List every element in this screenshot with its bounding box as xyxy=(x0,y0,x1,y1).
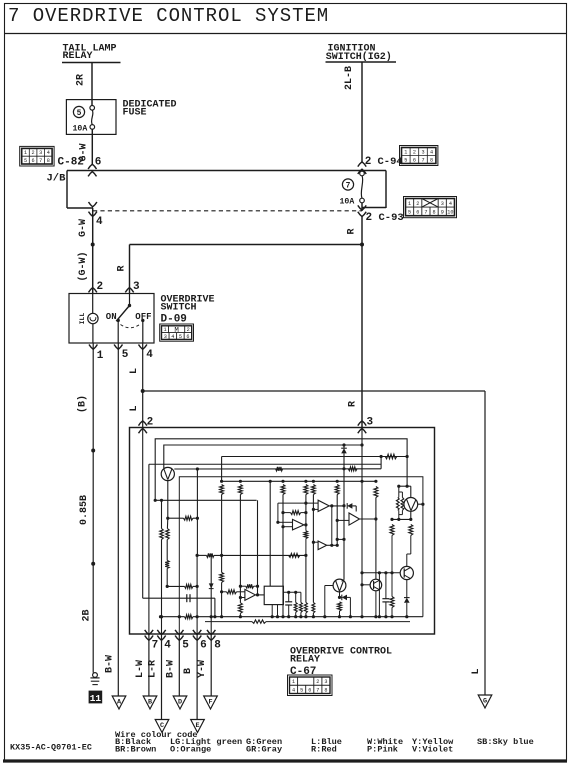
ground triangle E xyxy=(191,720,205,733)
svg-text:SWITCH: SWITCH xyxy=(161,302,197,313)
wire D3 to A4 xyxy=(352,505,356,507)
wire A5 input 2 xyxy=(240,597,245,599)
resistor R10 xyxy=(385,454,397,459)
junction y555b xyxy=(220,554,223,557)
resistor R19a xyxy=(295,592,297,602)
connector C-93 pin grid xyxy=(404,197,457,218)
svg-text:3: 3 xyxy=(441,201,444,207)
resistor R3 (T1 col upper) xyxy=(166,529,170,540)
svg-text:7: 7 xyxy=(316,687,319,693)
resistor R11 xyxy=(276,467,283,471)
resistor R16 (A5 input 1) xyxy=(220,590,223,593)
resistor R5 xyxy=(185,584,193,588)
wire pin4 column xyxy=(161,500,163,528)
wire mid feed xyxy=(222,456,408,458)
svg-text:7 OVERDRIVE CONTROL SYSTEM: 7 OVERDRIVE CONTROL SYSTEM xyxy=(8,5,329,27)
wire L branch to right xyxy=(143,390,485,392)
ignition switch feed bar xyxy=(326,61,397,63)
junction t1b xyxy=(196,467,199,470)
svg-text:KX35-AC-Q0701-EC: KX35-AC-Q0701-EC xyxy=(10,743,92,753)
junction of R wire xyxy=(360,243,364,247)
svg-text:(B): (B) xyxy=(77,395,89,413)
lower return rail xyxy=(205,621,252,623)
wire col 306 lower xyxy=(305,555,307,602)
ground triangle B xyxy=(143,696,157,709)
wire A3 out xyxy=(327,544,338,546)
connector arrows at relay pin 6 xyxy=(193,630,201,635)
junction c344 xyxy=(342,504,345,507)
svg-text:1: 1 xyxy=(404,149,407,155)
junction p4rail xyxy=(160,615,163,618)
svg-text:2: 2 xyxy=(365,156,372,168)
svg-text:RELAY: RELAY xyxy=(290,655,320,666)
overdrive switch box xyxy=(69,294,154,344)
svg-text:2: 2 xyxy=(187,327,190,333)
svg-text:3: 3 xyxy=(324,679,327,685)
resistor R2 xyxy=(160,529,164,540)
wire Q2 collector xyxy=(418,503,423,505)
wire col 376 supply xyxy=(374,480,377,483)
svg-text:8: 8 xyxy=(47,158,50,164)
wire 2R from tail lamp relay xyxy=(91,63,93,100)
wire A1 out xyxy=(329,505,345,507)
svg-text:1: 1 xyxy=(97,350,104,362)
wire y586 link xyxy=(167,585,184,587)
connector C-67 pin grid xyxy=(288,675,333,696)
svg-text:7: 7 xyxy=(152,640,159,652)
wire col 283 xyxy=(281,480,284,483)
transistor Q2 xyxy=(404,498,418,512)
wire col 337 xyxy=(336,480,339,483)
svg-text:J/B: J/B xyxy=(47,173,67,185)
wire col 257 (A5 feedback) xyxy=(257,500,259,595)
svg-text:5: 5 xyxy=(182,640,189,652)
svg-text:2R: 2R xyxy=(76,74,87,86)
wire relay pin7 column xyxy=(148,464,150,634)
switch common contact (pin 3) xyxy=(129,294,131,306)
svg-text:4: 4 xyxy=(449,201,452,207)
ON contact xyxy=(117,319,120,322)
wire capacitor line corner to bottom rail xyxy=(214,598,216,617)
resistor R12 xyxy=(348,467,357,471)
resistor R21 xyxy=(399,491,403,493)
svg-text:P:Pink: P:Pink xyxy=(367,744,398,754)
wire y486 xyxy=(399,485,411,487)
wire col 221 xyxy=(221,457,223,482)
fuse number circled 7 xyxy=(342,179,353,190)
svg-text:7: 7 xyxy=(421,157,424,163)
svg-text:SB:Sky blue: SB:Sky blue xyxy=(477,737,534,747)
svg-text:L-R: L-R xyxy=(147,660,158,678)
svg-text:4: 4 xyxy=(171,334,174,340)
wire A2 lower input xyxy=(283,526,293,528)
resistor R18 xyxy=(291,511,301,515)
svg-text:Y-W: Y-W xyxy=(197,660,208,678)
junction t1low xyxy=(166,585,169,588)
bottom rail xyxy=(161,616,185,618)
connector arrows at C-93 pin 2 xyxy=(358,205,366,210)
overdrive control relay outer box xyxy=(130,428,435,635)
transistor Q1 xyxy=(161,467,174,480)
wire Q3 base line xyxy=(362,572,400,574)
junction on L wire xyxy=(141,389,145,393)
svg-text:OFF: OFF xyxy=(135,312,151,322)
svg-text:2B: 2B xyxy=(81,609,92,621)
wire T1 base rail xyxy=(174,468,381,470)
op-amp A5 xyxy=(245,589,256,600)
svg-text:8: 8 xyxy=(214,640,221,652)
svg-text:SWITCH(IG2): SWITCH(IG2) xyxy=(326,51,392,63)
resistor R15 xyxy=(239,480,242,483)
connector arrow at switch pin 3 xyxy=(125,288,133,293)
svg-text:3: 3 xyxy=(164,334,167,340)
svg-text:(G-W): (G-W) xyxy=(77,251,89,281)
wire gray rail xyxy=(149,463,381,465)
J/B connector boundary (dashed) xyxy=(93,210,362,212)
transistor Q5 xyxy=(370,579,382,591)
connector arrows at relay pin 8 xyxy=(207,630,215,635)
supply rail from pin3 xyxy=(222,480,376,482)
svg-text:C-82: C-82 xyxy=(58,157,84,169)
OFF contact xyxy=(141,319,144,322)
splice joint on G-W wire xyxy=(91,243,95,247)
wire (G-W) splice to switch pin 2 xyxy=(92,245,94,294)
svg-text:E: E xyxy=(195,722,199,730)
transistor Q4 xyxy=(333,579,346,592)
junction a1in xyxy=(312,508,315,511)
svg-text:10: 10 xyxy=(447,209,453,215)
junction m1 xyxy=(380,455,383,458)
svg-text:B: B xyxy=(183,668,194,674)
resistor R24 xyxy=(391,573,393,597)
wire A1 feed corner xyxy=(278,503,318,522)
svg-text:4: 4 xyxy=(292,687,295,693)
wire col 313 xyxy=(312,480,315,483)
wire y555 link xyxy=(197,554,206,556)
svg-text:C-94: C-94 xyxy=(378,156,403,168)
svg-text:L-W: L-W xyxy=(135,660,146,678)
op-amp A3 xyxy=(318,541,327,550)
svg-text:3: 3 xyxy=(133,281,140,293)
wire 0.85B xyxy=(92,451,94,564)
wire L-W relay pin7 to ground B xyxy=(148,639,150,696)
svg-text:6: 6 xyxy=(186,334,189,340)
wire L switch pin4 to junction xyxy=(142,343,144,391)
wire top loop a xyxy=(155,439,407,501)
junction q1e xyxy=(166,517,169,520)
svg-text:10A: 10A xyxy=(73,125,88,134)
svg-text:D: D xyxy=(178,698,182,706)
junction a5in xyxy=(239,585,242,588)
connector C-94 pin grid xyxy=(400,146,438,166)
svg-text:7: 7 xyxy=(39,158,42,164)
connector arrows at relay pin 5 xyxy=(175,630,183,635)
wire pin3 column (relay) xyxy=(361,428,363,616)
wire pin8 column xyxy=(210,555,212,634)
resistor R4 (T1 col lower) xyxy=(166,540,168,561)
wire Q2 feed xyxy=(406,457,408,486)
svg-text:BR:Brown: BR:Brown xyxy=(115,744,156,754)
wire L junction to relay pin 2 xyxy=(142,391,144,428)
resistor R16b (A5 feedback) xyxy=(246,584,254,588)
svg-text:4: 4 xyxy=(146,349,153,361)
capacitor C2 xyxy=(288,592,290,602)
svg-text:C-93: C-93 xyxy=(379,212,404,224)
wire R branch to overdrive switch xyxy=(130,244,363,246)
wire Q5 top xyxy=(375,578,377,580)
svg-text:1: 1 xyxy=(292,679,295,685)
wire relay pin2 column xyxy=(142,428,144,599)
svg-text:2: 2 xyxy=(32,150,35,156)
junction b1 xyxy=(342,443,345,446)
wire D4 to rail xyxy=(406,603,408,617)
splice on ground wire xyxy=(91,449,95,453)
svg-text:5: 5 xyxy=(122,349,129,361)
wire R10 left link xyxy=(380,457,382,469)
resistor R17 xyxy=(238,603,242,614)
svg-text:F: F xyxy=(208,698,212,706)
junction a1 xyxy=(154,499,157,502)
capacitor C3 xyxy=(385,573,387,599)
wire pin2 to capacitor line xyxy=(143,597,215,599)
connector arrows at relay pin 3 xyxy=(358,421,366,426)
junction a2in xyxy=(281,511,284,514)
junction y500 xyxy=(160,499,163,502)
wire col 270 xyxy=(269,480,272,483)
dedicated fuse box xyxy=(66,100,116,135)
wire x338-x344 link xyxy=(337,538,344,540)
svg-text:C-67: C-67 xyxy=(290,666,316,678)
wire R from C-93 to junction xyxy=(361,217,363,245)
junction p6 xyxy=(196,554,199,557)
capacitor C1 xyxy=(186,594,188,602)
wire pin6 upper column xyxy=(196,469,198,555)
svg-text:6: 6 xyxy=(32,158,35,164)
svg-text:2: 2 xyxy=(97,281,104,293)
svg-text:2: 2 xyxy=(413,149,416,155)
svg-text:5: 5 xyxy=(77,109,82,118)
svg-text:7: 7 xyxy=(346,182,351,191)
wire col 379 xyxy=(378,573,380,617)
svg-text:5: 5 xyxy=(404,157,407,163)
wire R junction to relay pin 3 xyxy=(361,245,363,428)
IC U1 xyxy=(264,586,283,604)
resistor R7 xyxy=(289,553,300,557)
resistor R26 (A2 out) xyxy=(304,531,308,539)
wire U1 output xyxy=(283,591,301,593)
illumination lamp ILL xyxy=(92,294,94,314)
wire y500 rail xyxy=(155,499,256,501)
connector arrows at C-82/J/B pin 6 xyxy=(88,164,96,169)
diode D1 (pin8 col) xyxy=(209,583,214,588)
resistor R14 xyxy=(220,572,224,582)
wire col 306 upper xyxy=(304,480,307,483)
svg-text:5: 5 xyxy=(408,209,411,215)
svg-text:10A: 10A xyxy=(340,198,355,207)
connector C-82 pin grid xyxy=(20,146,54,166)
switch throw arc (dashed) xyxy=(121,324,142,328)
ground reference 11 xyxy=(89,691,103,704)
svg-text:R:Red: R:Red xyxy=(311,744,337,754)
svg-text:2: 2 xyxy=(366,212,373,224)
wire Y-W relay pin8 to ground F xyxy=(210,633,212,696)
fuse symbol (dedicated fuse) xyxy=(91,100,93,106)
svg-text:R: R xyxy=(116,265,127,271)
svg-text:L: L xyxy=(471,668,482,674)
svg-text:RELAY: RELAY xyxy=(63,51,93,62)
wire Q5 bottom xyxy=(375,591,377,617)
junction loop xyxy=(178,615,181,618)
junction c376 xyxy=(374,517,377,520)
svg-text:8: 8 xyxy=(433,209,436,215)
svg-text:B: B xyxy=(148,698,152,706)
diode D3 xyxy=(347,503,352,509)
chassis ground symbol xyxy=(93,673,98,678)
resistor R22 xyxy=(390,524,394,535)
ground triangle F xyxy=(204,696,218,709)
wire L-R relay pin4 to ground C xyxy=(161,633,163,720)
wire 2B xyxy=(92,564,94,673)
svg-text:C: C xyxy=(160,722,164,730)
resistor R25 xyxy=(338,602,342,611)
wire A3 feedback xyxy=(331,506,333,545)
resistor R19b xyxy=(300,592,302,602)
wire U1 bottom pins xyxy=(271,605,273,617)
ground triangle A xyxy=(112,696,126,709)
wire Q5 base xyxy=(362,584,370,586)
connector arrows at C-94 pin 2 xyxy=(358,162,366,167)
svg-text:9: 9 xyxy=(441,209,444,215)
svg-text:B-W: B-W xyxy=(105,655,116,673)
svg-text:L: L xyxy=(129,368,140,374)
wire top loop b xyxy=(164,445,362,468)
wire Q4 base left xyxy=(325,585,333,587)
wire G-W J/B to splice xyxy=(92,208,94,245)
wire A5 out xyxy=(255,594,264,596)
connector arrows at relay pin 4 xyxy=(157,630,165,635)
wire y519 xyxy=(392,518,411,520)
svg-text:ILL: ILL xyxy=(79,313,86,325)
svg-text:R: R xyxy=(348,401,359,407)
resistor R23 xyxy=(409,524,413,535)
svg-text:V:Violet: V:Violet xyxy=(412,744,453,754)
switch lever xyxy=(116,306,129,322)
svg-text:2L-B: 2L-B xyxy=(344,66,355,90)
svg-text:5: 5 xyxy=(179,334,182,340)
junction block J/B box xyxy=(67,170,386,172)
svg-text:8: 8 xyxy=(430,157,433,163)
svg-text:3: 3 xyxy=(367,417,374,429)
svg-text:O:Orange: O:Orange xyxy=(170,744,211,754)
connector arrow at switch pin 5 xyxy=(114,345,122,350)
resistor R13 xyxy=(220,485,224,495)
junction p8rail xyxy=(210,615,213,618)
op-amp A4 xyxy=(349,513,360,525)
wire R1 link xyxy=(168,517,184,519)
wire B switch pin1 to ground xyxy=(92,343,94,451)
svg-text:B-W: B-W xyxy=(166,660,177,678)
wire pin6 column xyxy=(196,555,198,634)
wire Q3 emitter xyxy=(406,580,408,598)
connector arrows at relay pin 2 xyxy=(139,421,147,426)
wire B relay pin6 to ground E xyxy=(196,633,198,720)
connector arrow at switch pin 1 xyxy=(89,345,97,350)
connector D-09 pin grid xyxy=(160,324,194,341)
op-amp A1 xyxy=(318,500,329,511)
svg-text:6: 6 xyxy=(416,209,419,215)
wire col 344 lower xyxy=(343,453,345,579)
svg-text:4: 4 xyxy=(164,640,171,652)
svg-text:6: 6 xyxy=(200,640,207,652)
svg-text:2: 2 xyxy=(416,201,419,207)
wire A4 out xyxy=(360,518,376,520)
svg-text:1: 1 xyxy=(163,327,166,333)
wire A2 out xyxy=(304,524,306,526)
svg-text:8: 8 xyxy=(324,687,327,693)
wire A2 upper input xyxy=(278,521,293,523)
resistor R1 xyxy=(184,516,193,520)
splice on ground wire 2 xyxy=(91,562,95,566)
connector arrow at switch pin 4 xyxy=(139,345,147,350)
wire 2L-B from ignition switch xyxy=(361,62,363,163)
connector arrows at relay pin 7 xyxy=(145,630,153,635)
connector arrow at switch pin 2 xyxy=(89,288,97,293)
junction pin3 col xyxy=(360,480,363,483)
fuse symbol (J/B fuse 7) xyxy=(361,170,363,173)
svg-text:4: 4 xyxy=(430,149,433,155)
svg-text:2: 2 xyxy=(316,679,319,685)
svg-text:3: 3 xyxy=(39,150,42,156)
wire Q4 emitter xyxy=(339,592,341,598)
svg-text:1: 1 xyxy=(24,150,27,156)
wire B-W switch pin5 to ground A xyxy=(117,343,119,696)
svg-text:5: 5 xyxy=(24,158,27,164)
svg-text:G: G xyxy=(483,697,487,705)
svg-text:4: 4 xyxy=(47,150,50,156)
diode D5 xyxy=(340,596,342,598)
transistor Q3 xyxy=(400,566,413,579)
svg-text:6: 6 xyxy=(413,157,416,163)
ground triangle G xyxy=(478,695,492,708)
resistor R20 xyxy=(398,486,400,497)
junction rail-left xyxy=(159,615,162,618)
tail lamp relay feed bar xyxy=(62,62,121,64)
svg-text:3: 3 xyxy=(421,149,424,155)
svg-text:GR:Gray: GR:Gray xyxy=(246,744,282,754)
connector arrows at J/B pin 4 xyxy=(89,202,97,207)
diode D2 xyxy=(341,448,347,453)
svg-text:0.85B: 0.85B xyxy=(79,495,90,525)
svg-text:2: 2 xyxy=(147,417,154,429)
svg-text:7: 7 xyxy=(424,209,427,215)
svg-text:6: 6 xyxy=(308,687,311,693)
fuse number circled 5 xyxy=(73,106,84,117)
wire G-W fuse to C-82 xyxy=(91,134,93,165)
wire B-W relay pin5 to ground D xyxy=(178,633,180,696)
svg-text:5: 5 xyxy=(300,687,303,693)
svg-text:4: 4 xyxy=(96,216,103,228)
svg-text:ON: ON xyxy=(106,312,117,322)
svg-text:L: L xyxy=(129,405,140,411)
resistor R6 xyxy=(207,553,215,557)
wire col 344 (from top) xyxy=(343,445,345,448)
svg-text:11: 11 xyxy=(90,693,102,704)
svg-text:1: 1 xyxy=(408,201,411,207)
svg-text:G-W: G-W xyxy=(78,219,89,237)
op-amp A2 xyxy=(293,519,304,530)
svg-text:R: R xyxy=(347,228,358,234)
ground triangle D xyxy=(173,696,187,709)
